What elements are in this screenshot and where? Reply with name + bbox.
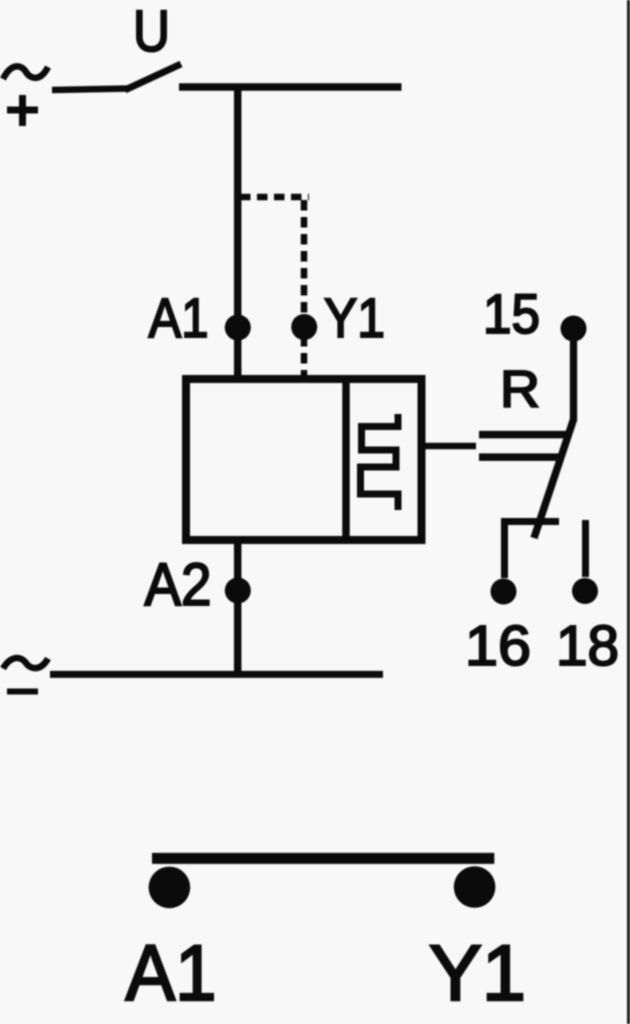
supply plus sign: [7, 95, 38, 126]
actuator parallel line upper: [479, 431, 567, 439]
vertical wire box to A2 to bottom: [234, 540, 242, 674]
vertical wire to A1: [234, 87, 242, 379]
contact blade: [534, 420, 574, 539]
bottom supply wire: [50, 671, 383, 678]
bottom minus sign: [7, 689, 38, 695]
svg-text:18: 18: [556, 614, 619, 678]
timer comb symbol: [361, 414, 399, 510]
dashed branch vertical to Y1: [301, 200, 308, 375]
actuator parallel line lower: [479, 453, 560, 461]
terminal 16 wire L: [505, 522, 560, 579]
terminal dot 16: [491, 579, 517, 605]
wire terminal 15: [570, 330, 577, 421]
switch U blade: [125, 64, 181, 90]
svg-text:Y1: Y1: [324, 286, 385, 349]
bottom AC tilde: [3, 658, 48, 669]
svg-text:A1: A1: [149, 286, 209, 349]
wire switch to right: [179, 83, 402, 91]
bottom plug pin Y1: [454, 866, 496, 908]
svg-text:U: U: [133, 0, 170, 64]
svg-text:16: 16: [465, 614, 531, 678]
dashed branch horizontal: [240, 194, 309, 201]
wire box to contact actuator: [424, 443, 476, 450]
svg-text:15: 15: [483, 282, 540, 345]
relay coil box: [186, 379, 422, 540]
bottom connector bar: [152, 853, 494, 864]
junction dot Y1: [291, 314, 317, 340]
box divider: [342, 379, 350, 540]
svg-text:R: R: [500, 361, 540, 419]
svg-text:Y1: Y1: [429, 928, 526, 1017]
terminal dot 15: [561, 316, 587, 342]
svg-text:A1: A1: [126, 928, 217, 1017]
junction dot A2: [225, 578, 251, 604]
bottom plug pin A1: [149, 867, 191, 909]
junction dot A1: [225, 315, 251, 341]
supply AC tilde (top left): [3, 66, 48, 79]
svg-text:A2: A2: [145, 551, 212, 618]
wire supply to switch: [52, 89, 128, 91]
scan edge line right: [627, 0, 630, 1024]
terminal dot 18: [572, 578, 598, 604]
terminal 18 wire: [582, 520, 589, 577]
